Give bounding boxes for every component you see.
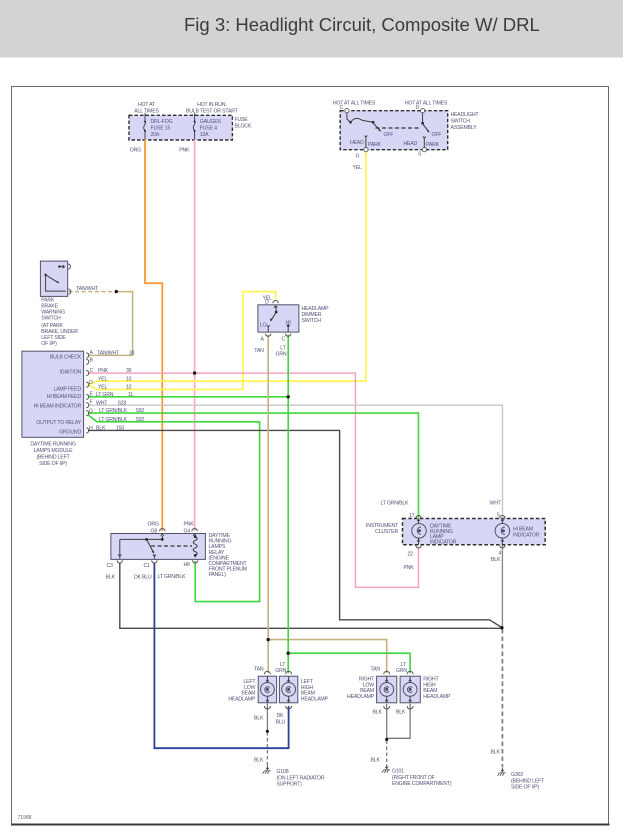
svg-text:BLK: BLK <box>254 758 264 764</box>
svg-text:OFF: OFF <box>432 132 442 138</box>
wire BLK splice to G101 (dashed) <box>386 741 388 766</box>
svg-text:HEADLAMP: HEADLAMP <box>423 694 451 700</box>
svg-text:4: 4 <box>499 551 502 557</box>
svg-text:BLOCK: BLOCK <box>235 124 252 130</box>
junction dot TAN/WHT <box>115 290 118 293</box>
svg-text:D: D <box>265 300 269 306</box>
svg-text:SWITCH: SWITCH <box>451 119 471 125</box>
wire label LT GRN/BLK 592 upper <box>99 408 144 414</box>
label DK BLU (relay C1) <box>134 575 152 581</box>
label BLK (left low) <box>254 716 264 722</box>
svg-text:FUSE 4: FUSE 4 <box>200 126 217 132</box>
svg-text:FUSE 15: FUSE 15 <box>151 126 171 132</box>
svg-text:WHT: WHT <box>490 501 502 507</box>
pin label 17 <box>409 513 415 519</box>
svg-text:BLK: BLK <box>491 557 501 563</box>
wire LT GRN branch to right high beam <box>288 653 410 673</box>
svg-text:OFF: OFF <box>384 132 394 138</box>
svg-text:ORG: ORG <box>148 522 159 528</box>
svg-text:150: 150 <box>116 426 124 432</box>
svg-text:C1: C1 <box>144 563 151 569</box>
headlamp dimmer switch box <box>258 305 299 332</box>
label TAN (left low) <box>254 667 264 673</box>
label PARK (right switch) <box>426 142 440 148</box>
wire BLK right high beam to splice <box>387 704 410 738</box>
label LT GRN/BLK (relay H8) <box>158 574 187 580</box>
svg-text:G101: G101 <box>392 769 404 775</box>
svg-text:HI BEAM INDICATOR: HI BEAM INDICATOR <box>34 403 82 409</box>
svg-text:INDICATOR: INDICATOR <box>430 539 457 545</box>
wire label YEL 10 upper <box>98 376 132 382</box>
park brake switch connector bottom-right <box>68 289 71 294</box>
svg-text:C: C <box>282 337 286 343</box>
label YEL (switch G) <box>353 165 363 171</box>
svg-text:GRN: GRN <box>396 668 407 674</box>
label BLK (G302 wire) <box>491 750 501 756</box>
svg-text:LT GRN/BLK: LT GRN/BLK <box>99 408 128 414</box>
ground G108 <box>263 766 271 774</box>
svg-text:C: C <box>340 105 344 111</box>
svg-text:HEADLAMP: HEADLAMP <box>301 696 329 702</box>
svg-text:BLK: BLK <box>396 710 406 716</box>
pin label H8 <box>184 562 191 568</box>
headlight switch pin C <box>345 109 349 113</box>
label PNK (cluster 22) <box>404 565 415 571</box>
label RIGHT HIGH BEAM HEADLAMP <box>423 677 451 700</box>
wire TAN dimmer A to left low beam <box>267 335 269 674</box>
relay coil dashed link <box>151 545 192 547</box>
headlight switch pin G <box>364 148 368 152</box>
svg-text:GAUGES: GAUGES <box>200 119 222 125</box>
pin label C (dimmer) <box>282 337 286 343</box>
pin label C <box>340 105 344 111</box>
svg-text:BLU: BLU <box>276 720 286 726</box>
wire PNK fuse4 to relay G4 <box>194 140 196 532</box>
left high beam headlamp bulb <box>282 671 296 709</box>
label BLK (right high) <box>396 710 406 716</box>
right high beam headlamp box <box>400 676 420 703</box>
svg-text:10: 10 <box>126 376 132 382</box>
label BLK (relay C3) <box>106 575 116 581</box>
label LEFT LOW BEAM HEADLAMP <box>228 679 256 702</box>
wire LT GRN dimmer C to left high beam <box>287 335 289 674</box>
module pin letters A-H <box>89 350 94 432</box>
svg-text:HOT IN RUN,: HOT IN RUN, <box>197 102 226 108</box>
svg-text:BLK: BLK <box>491 750 501 756</box>
svg-text:PARK: PARK <box>426 142 440 148</box>
cluster pin 4 connector <box>500 545 505 548</box>
label G108 <box>277 769 325 788</box>
svg-text:HOT AT ALL TIMES: HOT AT ALL TIMES <box>405 101 448 107</box>
label PARK (left switch) <box>368 142 382 148</box>
label PARK BRAKE WARNING SWITCH <box>41 298 78 348</box>
label HOT AT ALL TIMES (switch D) <box>405 101 448 107</box>
dimmer switch pin A connector <box>266 334 271 337</box>
headlight switch pin D <box>421 109 425 113</box>
dimmer switch pin C connector <box>286 334 291 337</box>
relay pin G8 connector <box>160 529 165 537</box>
svg-text:LT GRN/BLK: LT GRN/BLK <box>99 417 128 423</box>
cluster pin 5 connector <box>500 516 505 519</box>
pin label 5 <box>497 513 500 519</box>
svg-text:TAN/WHT: TAN/WHT <box>76 286 99 292</box>
pin label 22 <box>408 552 414 558</box>
label HEADLAMP DIMMER SWITCH <box>302 306 330 324</box>
right high beam headlamp bulb <box>403 671 417 709</box>
svg-text:HI: HI <box>286 320 291 326</box>
junction dot TAN branch <box>267 638 270 641</box>
junction dot BLK left splice <box>266 730 269 733</box>
label TAN (dimmer A) <box>254 348 264 354</box>
svg-text:PARK: PARK <box>368 142 382 148</box>
junction dot LT GRN branch <box>287 652 290 655</box>
svg-text:592: 592 <box>136 417 144 423</box>
dimmer switch internal blade LO/HI <box>267 307 290 333</box>
label DAYTIME RUNNING LAMPS RELAY <box>209 533 248 578</box>
wire BLK left low beam to splice <box>266 704 268 731</box>
svg-text:(BEHIND LEFT: (BEHIND LEFT <box>36 455 70 461</box>
svg-text:DRL-FOG: DRL-FOG <box>151 119 173 125</box>
svg-text:PNK: PNK <box>184 522 195 528</box>
label RIGHT LOW BEAM HEADLAMP <box>347 677 375 700</box>
svg-text:BLK: BLK <box>371 758 381 764</box>
label PNK <box>179 148 190 154</box>
label HOT AT ALL TIMES (switch C) <box>333 101 376 107</box>
label OFF (right switch) <box>432 132 442 138</box>
wire YEL module D to dimmer switch D <box>88 292 276 390</box>
svg-text:BULB CHECK: BULB CHECK <box>50 354 82 360</box>
headlight switch right contacts and blade <box>421 113 429 147</box>
svg-text:C3: C3 <box>107 563 114 569</box>
label LT GRN/BLK (cluster 17) <box>381 501 410 507</box>
label HOT AT ALL TIMES (fuse 15) <box>134 102 159 115</box>
svg-text:LT GRN/BLK: LT GRN/BLK <box>158 574 187 580</box>
svg-text:HEADLAMP: HEADLAMP <box>228 696 256 702</box>
wire LT GRN/BLK module G to relay H8 <box>88 415 260 602</box>
svg-text:BLK: BLK <box>106 575 116 581</box>
label DK BLU (left high) <box>276 713 286 726</box>
svg-text:A: A <box>261 337 265 343</box>
svg-text:LAMP FEED: LAMP FEED <box>53 386 81 392</box>
svg-text:OF I/P): OF I/P) <box>41 341 57 347</box>
relay coil <box>193 535 197 558</box>
daytime running lamp indicator bulb <box>412 519 427 545</box>
svg-text:D: D <box>416 105 420 111</box>
wire label TAN/WHT 33 <box>97 350 135 356</box>
label DAYTIME RUNNING LAMP INDICATOR <box>430 524 457 546</box>
pin label A (dimmer) <box>261 337 265 343</box>
headlight switch gang dashed link <box>376 127 422 129</box>
relay internal switch <box>118 536 163 559</box>
svg-text:TAN/WHT: TAN/WHT <box>97 350 120 356</box>
svg-text:G108: G108 <box>277 769 289 775</box>
wire label PNK 39 <box>98 368 132 374</box>
label LO <box>260 323 267 329</box>
svg-text:ASSEMBLY: ASSEMBLY <box>451 125 478 131</box>
wire LT GRN/BLK module G to cluster 17 <box>88 413 419 518</box>
svg-text:OUTPUT TO RELAY: OUTPUT TO RELAY <box>36 420 81 426</box>
wire label WHT 628 <box>96 400 126 406</box>
module internal labels <box>34 354 82 435</box>
svg-text:B: B <box>90 357 94 363</box>
instrument cluster box <box>403 519 546 545</box>
svg-text:PANEL): PANEL) <box>209 572 227 578</box>
wire BLK right low beam to splice <box>386 704 388 739</box>
cluster pin 22 connector <box>416 545 421 548</box>
wire TAN/WHT park brake switch to junction (dashed) <box>69 291 117 293</box>
label YEL (dimmer feed) <box>263 296 273 302</box>
wire BLK G302 node to ground (dashed) <box>501 629 503 767</box>
pin label D <box>416 105 420 111</box>
svg-text:WHT: WHT <box>96 400 108 406</box>
wire PNK module C to instrument cluster 22 <box>88 373 419 587</box>
wire LT GRN module E to dimmer C net <box>88 396 288 398</box>
label PNK (relay) <box>184 522 195 528</box>
svg-text:F: F <box>90 399 93 405</box>
wire ORG fuse15 to relay G8 <box>145 140 162 532</box>
pin label G4 <box>184 529 191 535</box>
wire TAN/WHT junction to module A <box>88 292 133 356</box>
label DRL-FOG FUSE 15 20A <box>151 119 173 138</box>
wire BLK relay C3 to G302 node <box>120 563 502 629</box>
svg-text:FUSE: FUSE <box>235 117 249 123</box>
pin label C3 <box>107 563 114 569</box>
svg-text:11: 11 <box>128 392 133 398</box>
svg-text:628: 628 <box>118 400 126 406</box>
headlight switch left contacts and blade <box>347 113 381 147</box>
svg-text:YEL: YEL <box>353 165 363 171</box>
label LT GRN (dimmer C) <box>276 346 287 358</box>
left high beam headlamp box <box>279 676 297 703</box>
svg-text:ORG: ORG <box>130 148 141 154</box>
label HOT IN RUN, BULB TEST OR START <box>186 102 239 115</box>
wire YEL headlight switch G to module D <box>88 152 366 385</box>
svg-text:BLK: BLK <box>373 710 383 716</box>
svg-text:10A: 10A <box>200 132 209 138</box>
left low beam headlamp bulb <box>261 671 275 709</box>
wire TAN branch to right low beam <box>268 640 387 674</box>
fuse block box <box>129 115 232 140</box>
svg-text:BLK: BLK <box>254 716 264 722</box>
label BLK (right ground) <box>371 758 381 764</box>
svg-text:ENGINE COMPARTMENT): ENGINE COMPARTMENT) <box>392 781 452 787</box>
svg-text:592: 592 <box>136 408 144 414</box>
svg-text:INDICATOR: INDICATOR <box>513 533 540 539</box>
svg-text:YEL: YEL <box>98 376 108 382</box>
svg-text:C: C <box>90 368 94 374</box>
label G302 <box>511 772 545 791</box>
pin label G <box>356 154 360 160</box>
svg-text:GRN: GRN <box>275 668 286 674</box>
svg-text:5: 5 <box>497 513 500 519</box>
label WHT (cluster 5) <box>490 501 502 507</box>
label G101 <box>392 769 452 788</box>
svg-text:20A: 20A <box>151 132 160 138</box>
ground G302 <box>498 768 506 776</box>
svg-text:GRN: GRN <box>276 352 287 358</box>
svg-text:HOT AT: HOT AT <box>138 102 156 108</box>
svg-text:TAN: TAN <box>254 348 264 354</box>
svg-text:PNK: PNK <box>404 565 415 571</box>
dimmer switch pin D connector <box>273 301 278 308</box>
svg-text:G: G <box>89 408 93 414</box>
svg-text:33: 33 <box>129 350 135 356</box>
svg-text:71988: 71988 <box>18 815 32 821</box>
relay pin H8 connector <box>193 560 198 563</box>
daytime running lamps relay box <box>111 534 205 560</box>
svg-text:17: 17 <box>409 513 415 519</box>
svg-text:BLK: BLK <box>96 426 106 432</box>
label LT GRN (left high) <box>275 662 286 674</box>
svg-text:CLUSTER: CLUSTER <box>375 529 398 535</box>
svg-text:HEAD: HEAD <box>404 141 418 147</box>
wire BLK splice to G108 (dashed) <box>266 732 268 767</box>
svg-text:LAMPS MODULE: LAMPS MODULE <box>34 448 74 454</box>
svg-text:ALL TIMES: ALL TIMES <box>134 109 159 115</box>
label BLK (right low) <box>373 710 383 716</box>
label TAN (right low) <box>371 667 381 673</box>
svg-text:G4: G4 <box>184 529 191 535</box>
pin label G8 <box>151 529 158 535</box>
pin label 4 <box>499 551 502 557</box>
junction dot BLK G302 node <box>500 626 503 629</box>
label LT GRN (right high) <box>396 662 407 674</box>
svg-text:IGNITION: IGNITION <box>60 369 82 375</box>
svg-text:LT GRN: LT GRN <box>96 392 114 398</box>
svg-text:DK BLU: DK BLU <box>134 575 152 581</box>
svg-text:H8: H8 <box>184 562 191 568</box>
label LEFT HIGH BEAM HEADLAMP <box>301 679 329 702</box>
fuse GAUGES 4 symbol <box>193 113 195 140</box>
svg-text:HI BEAM FEED: HI BEAM FEED <box>47 394 82 400</box>
svg-text:LT GRN/BLK: LT GRN/BLK <box>381 501 410 507</box>
svg-text:G8: G8 <box>151 529 158 535</box>
daytime running lamps module box <box>22 351 84 437</box>
park brake switch internal blade <box>44 265 65 291</box>
label ORG <box>130 148 141 154</box>
headlight switch pin S <box>422 148 426 152</box>
module pin connectors A-H <box>86 353 89 433</box>
pin label S <box>418 152 422 158</box>
headlight switch assembly box <box>340 111 448 150</box>
label fuse block <box>235 117 252 130</box>
svg-text:G302: G302 <box>511 772 523 778</box>
junction dot BLK right splice <box>385 738 388 741</box>
label HI BEAM INDICATOR <box>513 527 540 539</box>
svg-text:H: H <box>89 425 93 431</box>
label OFF (left switch) <box>384 132 394 138</box>
svg-text:LO: LO <box>260 323 267 329</box>
right low beam headlamp box <box>377 676 397 703</box>
svg-text:39: 39 <box>126 368 132 374</box>
wire label LT GRN/BLK 592 lower <box>99 417 144 423</box>
label DAYTIME RUNNING LAMPS MODULE <box>30 442 75 468</box>
svg-text:HEADLIGHT: HEADLIGHT <box>451 112 480 118</box>
svg-text:PNK: PNK <box>179 148 190 154</box>
label INSTRUMENT CLUSTER <box>366 523 399 535</box>
relay pin G4 connector <box>192 529 197 537</box>
label HI <box>286 320 291 326</box>
right low beam headlamp bulb <box>380 671 394 709</box>
label BLK (cluster 4) <box>491 557 501 563</box>
label ORG (relay) <box>148 522 159 528</box>
svg-text:YEL: YEL <box>98 385 108 391</box>
fuse DRL-FOG 15 symbol <box>144 113 146 140</box>
pin label C1 <box>144 563 151 569</box>
svg-text:10: 10 <box>126 385 132 391</box>
svg-text:TAN: TAN <box>371 667 381 673</box>
wire label BLK 150 <box>96 426 124 432</box>
wire BLK 150 module H to G302 node <box>88 430 502 627</box>
svg-text:HEADLAMP: HEADLAMP <box>347 694 375 700</box>
svg-text:G: G <box>356 154 360 160</box>
svg-text:S: S <box>418 152 422 158</box>
svg-text:DK: DK <box>277 713 285 719</box>
wire BLK cluster 4 down to G302 node <box>501 546 503 628</box>
svg-text:DAYTIME RUNNING: DAYTIME RUNNING <box>30 442 75 448</box>
svg-text:D: D <box>89 380 93 386</box>
hi beam indicator bulb <box>495 519 510 545</box>
cluster pin 17 connector <box>416 516 421 519</box>
left low beam headlamp box <box>258 676 276 703</box>
svg-text:BULB TEST OR START: BULB TEST OR START <box>186 109 239 115</box>
svg-text:22: 22 <box>408 552 414 558</box>
svg-text:PNK: PNK <box>98 368 109 374</box>
svg-text:SUPPORT): SUPPORT) <box>277 782 303 788</box>
park brake switch connector top-right <box>68 264 71 269</box>
ground G101 <box>382 765 390 773</box>
label GAUGES FUSE 4 10A <box>200 119 222 138</box>
wire WHT module F to cluster 5 <box>88 405 503 518</box>
label HEADLIGHT SWITCH ASSEMBLY <box>451 112 480 131</box>
junction dot PNK at module C wire <box>193 371 196 374</box>
pin label D (dimmer) <box>265 300 269 306</box>
label HEAD (left switch) <box>350 140 364 146</box>
junction dot LT GRN at dimmer C net <box>287 395 290 398</box>
wire label YEL 10 lower <box>98 385 132 391</box>
svg-text:Fig 3: Headlight Circuit, Comp: Fig 3: Headlight Circuit, Composite W/ D… <box>184 14 540 35</box>
label TAN/WHT (park brake wire) <box>76 286 99 292</box>
svg-text:HEAD: HEAD <box>350 140 364 146</box>
title bar <box>0 0 623 58</box>
park brake warning switch box <box>40 261 67 296</box>
svg-text:GROUND: GROUND <box>59 429 81 435</box>
relay pin C3 connector <box>117 560 122 563</box>
svg-text:SIDE OF I/P): SIDE OF I/P) <box>39 461 67 467</box>
wire label LT GRN 11 <box>96 392 133 398</box>
svg-text:TAN: TAN <box>254 667 264 673</box>
label BLK (left ground) <box>254 758 264 764</box>
svg-text:SWITCH: SWITCH <box>41 316 61 322</box>
relay pin C1 connector <box>152 560 157 563</box>
wire DK BLU relay C1 to left high beam <box>154 563 288 749</box>
svg-text:SIDE OF I/P): SIDE OF I/P) <box>511 785 539 791</box>
label HEAD (right switch) <box>404 141 418 147</box>
svg-text:SWITCH: SWITCH <box>302 318 322 324</box>
